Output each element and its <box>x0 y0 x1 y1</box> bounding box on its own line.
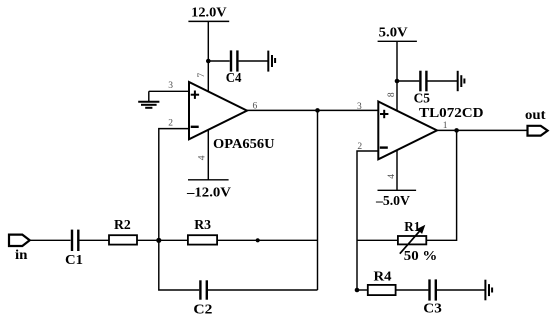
capacitor C4 <box>231 50 237 71</box>
resistor R3 <box>188 235 217 244</box>
wire node to R4 <box>357 289 368 291</box>
ground at C5 (sideways) <box>458 71 465 91</box>
junction on R3 wire <box>256 238 260 242</box>
wire supply 12V to op1 pin7 <box>207 21 209 91</box>
wire C3 to ground <box>437 289 485 291</box>
resistor R2 <box>109 235 137 244</box>
supply -5V bar <box>378 189 417 191</box>
wire R3 to net at x317 <box>217 239 317 241</box>
svg-text:R4: R4 <box>374 269 392 284</box>
wire R2 to R3 <box>137 239 188 241</box>
op-amp U1 OPA656U <box>189 82 247 139</box>
svg-text:4: 4 <box>197 155 207 160</box>
ground at C4 (sideways) <box>268 51 275 72</box>
wire C1 to R2 <box>79 239 109 241</box>
svg-text:in: in <box>15 248 28 263</box>
svg-text:2: 2 <box>168 119 173 129</box>
svg-text:3: 3 <box>168 81 173 91</box>
input port IO1 'in' <box>9 235 30 246</box>
svg-text:12.0V: 12.0V <box>191 6 227 21</box>
svg-text:TL072CD: TL072CD <box>419 106 484 121</box>
potentiometer R1 wiper arrow <box>400 225 426 254</box>
wire C5 to ground <box>428 80 458 82</box>
svg-text:6: 6 <box>253 102 258 112</box>
wire supply 5V to op2 pin8 <box>396 41 398 111</box>
junction C4 tap <box>206 59 211 64</box>
wire vertical net op1 output down <box>317 110 319 290</box>
capacitor C5 <box>420 71 426 92</box>
wire in to C1 <box>30 239 71 241</box>
capacitor C3 <box>430 279 436 300</box>
wire op1 out to op2 in <box>247 109 378 111</box>
supply -12V bar <box>188 179 229 181</box>
wire R4 to C3 <box>396 289 429 291</box>
svg-text:3: 3 <box>357 102 362 112</box>
svg-text:50 %: 50 % <box>404 249 438 264</box>
svg-text:7: 7 <box>197 73 207 78</box>
svg-text:R2: R2 <box>114 218 131 233</box>
wire R1 right up to output <box>426 130 456 240</box>
svg-text:C2: C2 <box>193 303 212 317</box>
svg-text:OPA656U: OPA656U <box>213 137 275 152</box>
svg-text:C5: C5 <box>414 92 430 107</box>
capacitor C2 <box>200 280 206 299</box>
svg-text:2: 2 <box>357 142 362 152</box>
junction node feedback/input <box>156 238 161 243</box>
svg-text:8: 8 <box>387 92 397 97</box>
svg-text:–12.0V: –12.0V <box>186 185 231 200</box>
op2 plus input mark <box>380 110 388 118</box>
supply +12V bar <box>188 20 229 22</box>
svg-text:out: out <box>525 108 546 123</box>
svg-text:R3: R3 <box>194 218 211 233</box>
junction C5 tap <box>395 79 400 84</box>
op1 minus input mark <box>191 126 199 128</box>
svg-text:5.0V: 5.0V <box>379 26 408 41</box>
wire op2 pin2 feedback <box>357 151 378 290</box>
op1 plus input mark <box>191 91 199 99</box>
svg-text:1: 1 <box>443 121 448 131</box>
wire C2 to vertical net <box>208 289 318 291</box>
ground at C3 (sideways) <box>485 280 492 301</box>
potentiometer R1 body <box>398 236 426 244</box>
supply +5V bar <box>378 40 417 42</box>
svg-text:C4: C4 <box>226 71 242 86</box>
wire op1 pin3 <box>149 90 189 92</box>
wire tap to C4 <box>208 60 229 62</box>
op2 minus input mark <box>380 146 388 148</box>
wire op2 pin4 down <box>396 150 398 191</box>
svg-text:C3: C3 <box>423 301 442 316</box>
wire C4 to ground <box>239 60 268 62</box>
wire R1 left <box>357 239 398 241</box>
svg-text:R1: R1 <box>404 220 420 235</box>
wire op1 pin4 down <box>207 130 209 180</box>
svg-text:4: 4 <box>387 174 397 179</box>
junction op1 output <box>315 108 320 113</box>
op-amp U2 TL072CD <box>378 102 437 160</box>
wire op1 pin2 feedback down to C2 <box>159 129 199 290</box>
svg-text:C1: C1 <box>65 253 83 268</box>
svg-text:–5.0V: –5.0V <box>375 194 410 209</box>
resistor R4 <box>368 285 396 295</box>
wire tap to C5 <box>397 80 419 82</box>
wire op2 out to port <box>437 129 528 131</box>
ground at op1 pin3 <box>138 91 159 108</box>
capacitor C1 <box>72 230 78 251</box>
output port IO2 'out' <box>528 126 548 136</box>
junction R4 node <box>355 288 360 293</box>
junction op2 output <box>454 128 459 133</box>
